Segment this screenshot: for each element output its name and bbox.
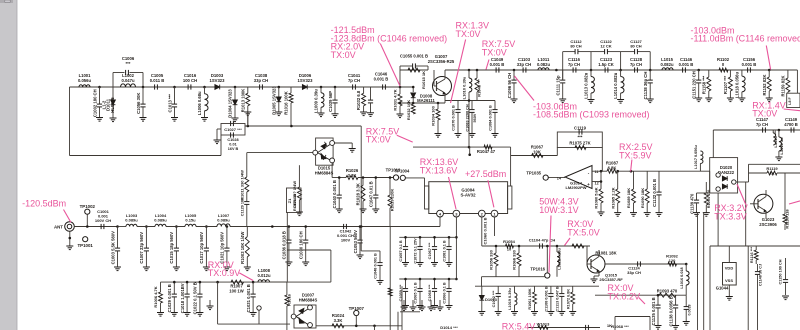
inductor L1019 shunt [778,130,780,137]
capacitor C1128 series [635,67,638,72]
wire D1015 top pin to ground [335,142,353,144]
inductor L1015 series [662,68,673,70]
wire from D1020 to right box [736,181,749,183]
resistor R1092 series [668,262,677,266]
capacitor C1029 0.001 B shunt [173,282,175,294]
svg-text:TX:3.3V: TX:3.3V [714,211,747,221]
resistor R1116 shunt [755,246,757,250]
svg-text:100 CH: 100 CH [183,78,197,83]
capacitor C1015 18p 560V shunt [175,227,177,249]
inductor L1005 [185,224,196,226]
capacitor C1040 0.001 B shunt [338,178,340,196]
svg-text:C1119: C1119 [574,126,587,131]
svg-text:C1029 0.001 B: C1029 0.001 B [167,284,172,312]
svg-text:1.5p CK: 1.5p CK [598,62,614,67]
resistor R1090 shunt [646,171,648,189]
svg-text:+27.5dBm: +27.5dBm [465,169,506,179]
inductor L1006 0.68u shunt [204,87,206,94]
svg-text:-120.5dBm: -120.5dBm [22,199,66,209]
svg-text:C1003 5.5K 560V: C1003 5.5K 560V [110,231,115,264]
svg-text:80 CH: 80 CH [630,44,641,49]
node [630,170,633,173]
svg-text:R1094 470: R1094 470 [707,190,711,209]
svg-text:100 1W: 100 1W [229,288,243,293]
svg-text:C1027 ***: C1027 *** [224,127,242,132]
svg-text:R1054: R1054 [503,239,516,244]
wire rail end down [796,70,798,93]
resistor R1094 shunt [705,182,707,193]
capacitor C1049 series [496,67,499,72]
scanner gray margin strip [0,0,17,330]
svg-text:C1002 180 CH: C1002 180 CH [92,89,97,117]
svg-text:R1015 1K: R1015 1K [421,71,426,89]
resistor R1107 *** shunt [729,70,731,77]
test point TP1012 [393,175,398,180]
resistor R1013 100K shunt [247,87,249,93]
svg-text:D1005 1SV323: D1005 1SV323 [271,86,276,115]
wire upper mid bus [482,276,546,278]
svg-text:R1085 2.2K: R1085 2.2K [610,187,615,208]
svg-text:TX:0.2V: TX:0.2V [608,292,641,302]
wire top RF rail [70,86,414,88]
resistor R1089 shunt [633,171,635,189]
capacitor C1150 shunt [785,258,787,279]
svg-text:W1013: W1013 [537,322,550,327]
svg-text:R1013 100K: R1013 100K [240,89,245,113]
capacitor C1151 220 CH shunt [698,70,700,80]
diode D1008 to emitter line [412,87,414,92]
node [142,86,145,89]
resistor R1075 27K [575,146,586,150]
leader RX1.3 [451,40,466,104]
wire corner down to R1067 line [510,147,512,155]
svg-text:C1040 0.001 B: C1040 0.001 B [332,180,337,208]
wire x361 down [360,227,362,251]
wire lower-left loop [70,155,222,157]
wire pin1 down [494,217,496,236]
wire IF line right [713,129,800,131]
capacitor C1127 [635,49,638,54]
leader to C1046 [380,44,400,87]
diode D1020 DAN222 [710,158,738,193]
svg-text:R1093 470: R1093 470 [657,289,678,294]
capacitor C1156 series [748,67,751,72]
wire mid bus y126 [245,125,361,127]
resistor R1031 vertical [399,87,401,94]
test point TP1004 [400,175,405,180]
capacitor C1108 shunt [550,286,552,293]
wire ANT chain [74,226,117,228]
capacitor C1041 series [353,84,356,89]
capacitor C1123 series [605,67,608,72]
svg-text:R1159 82K: R1159 82K [781,76,786,97]
svg-text:TX:5.0V: TX:5.0V [567,227,600,237]
capacitor C1148 shunt [757,264,759,271]
leader +27.5 [488,180,494,207]
resistor R1054 series [506,244,514,248]
wire up to module pin4 [439,217,441,227]
capacitor C1147 series [763,127,766,132]
capacitor C1134 [246,192,248,201]
capacitor C1042 series [344,224,347,229]
resistor R1007 series [231,280,244,284]
wire emitter top bus [445,100,495,102]
capacitor C1132 0.001 B shunt [658,171,660,192]
svg-text:G1044: G1044 [716,286,729,291]
resistor R1016 shunt [290,87,292,93]
svg-text:C1150 100 CH: C1150 100 CH [779,259,783,284]
node [555,69,558,72]
bypass ladder top row [562,52,564,70]
svg-text:L1012 0.28u: L1012 0.28u [558,248,562,270]
svg-text:C1022 0.1 50V B: C1022 0.1 50V B [193,282,198,314]
wire module right connect [510,156,512,187]
svg-text:C1067 ***: C1067 *** [428,242,432,259]
svg-text:C1111 15p: C1111 15p [556,75,561,95]
svg-text:C1132 0.001 B: C1132 0.001 B [652,179,657,207]
svg-text:R1090 18K: R1090 18K [640,188,645,208]
svg-text:TX:0V: TX:0V [331,50,356,60]
svg-text:R1061 100K: R1061 100K [528,288,532,310]
resistor R1021 shunt [298,165,300,187]
node [768,69,771,72]
svg-text:L1025 ***: L1025 *** [773,130,778,148]
leader 50W [549,216,551,273]
capacitor C1005 series [150,86,155,88]
leader TX0.9 [239,273,253,281]
svg-text:0.089u: 0.089u [154,218,167,223]
wire lower left net [161,281,288,283]
capacitor C1104 series [540,243,543,248]
svg-text:C1148 36 CJ: C1148 36 CJ [759,264,763,286]
inductor L1016 shunt [685,264,687,271]
svg-text:0.047u: 0.047u [121,78,134,83]
node on rail [98,86,101,89]
wire emitter bias joins [469,147,471,155]
svg-text:L1017 0.056u: L1017 0.056u [694,145,698,169]
svg-text:+: + [587,182,590,187]
inductor L1019b shunt [514,286,516,293]
svg-text:TX:13.6V: TX:13.6V [420,166,458,176]
svg-text:R1016: R1016 [287,293,292,306]
svg-text:R1006 4.7K: R1006 4.7K [153,286,158,307]
svg-text:16V B: 16V B [228,147,239,151]
resistor R1067 series [532,154,543,158]
svg-text:RX:5.4V: RX:5.4V [502,322,536,330]
svg-text:100V CH: 100V CH [95,218,111,223]
svg-text:0.011 B: 0.011 B [150,78,164,83]
svg-text:7p CH: 7p CH [630,62,642,67]
capacitor C1103 series [523,67,526,72]
resistor R1047 series [484,145,492,149]
resistor R1102 series [713,69,719,71]
test point TP1002 [85,209,90,214]
inductor L1014 0.082u shunt [620,70,622,76]
svg-text:***: *** [578,135,583,140]
leader RX2.5 [631,160,632,172]
test point TP1001 [83,237,88,242]
svg-text:R1032 10K: R1032 10K [406,100,411,120]
svg-text:TX:0V: TX:0V [482,47,507,57]
svg-text:0.001 B: 0.001 B [679,62,694,67]
inductor L1009 0.39u shunt [320,87,322,93]
leader C1146 [766,46,770,70]
leader TX0.2 [639,298,645,305]
transistor G1007 [433,77,452,96]
diode D1015 HM6884S [316,138,334,165]
svg-text:R1046 ***: R1046 *** [477,79,482,97]
svg-text:2SC3357-RF: 2SC3357-RF [599,277,623,282]
svg-text:7p CH: 7p CH [756,122,768,127]
svg-text:TX:0V: TX:0V [752,109,777,119]
svg-text:C1081 0.1 B: C1081 0.1 B [443,240,447,262]
wire vertical risers [697,246,699,330]
svg-text:100V: 100V [341,238,351,243]
svg-text:33p CH: 33p CH [254,78,268,83]
svg-text:C1068 ***: C1068 *** [428,284,432,301]
node [685,263,688,266]
node [334,86,337,89]
svg-text:TX:0V: TX:0V [366,135,391,145]
svg-text:R1116 ***: R1116 *** [750,246,754,263]
inductor L1025 [772,130,774,133]
svg-text:TP1002: TP1002 [80,204,96,209]
wire bottom net [316,325,402,327]
svg-text:C1104 47p CH: C1104 47p CH [529,238,556,243]
test point TP1016 [545,273,550,278]
capacitor C1006 bypass loop [112,73,114,88]
svg-text:Z1: Z1 [287,198,292,203]
wire D1015 bottom pin down [331,163,333,178]
wire emitter line [400,102,445,104]
inductor L1007 [217,224,230,227]
svg-text:R1016 100K: R1016 100K [284,91,289,115]
svg-text:R1068 ***: R1068 *** [611,324,629,329]
svg-text:R1107 ***: R1107 *** [723,76,728,95]
wire module left connect [424,178,426,186]
svg-text:TP1004: TP1004 [395,168,410,173]
svg-text:C1056 30K: C1056 30K [136,93,141,114]
node [278,86,281,89]
svg-text:L1013 0.082u: L1013 0.082u [584,72,589,99]
resistor R1058 shunt [495,246,497,253]
svg-text:L1016 0.018: L1016 0.018 [680,267,684,288]
svg-text:C1072 0.1 25V: C1072 0.1 25V [414,238,418,264]
svg-text:C1018 1.001BV: C1018 1.001BV [180,283,185,313]
svg-text:C1092 ***: C1092 *** [492,290,496,307]
capacitor C1146 series [683,67,686,72]
svg-text:L1019 0.39u: L1019 0.39u [508,288,512,310]
inductor L1018 0.056u shunt [741,70,743,76]
svg-text:0.012u: 0.012u [257,273,270,278]
resistor R1003 10K 1/4W shunt [246,227,248,237]
svg-text:C1065 0.1 B: C1065 0.1 B [414,282,418,304]
svg-text:C1113 0.047 B: C1113 0.047 B [556,286,560,311]
svg-text:L1-2: L1-2 [102,100,107,109]
svg-text:7p CH: 7p CH [348,78,360,83]
svg-text:L1006 0.68u: L1006 0.68u [197,91,202,115]
svg-text:C1021 10p 560V: C1021 10p 560V [220,232,225,264]
wire op-amp plus rail [592,170,607,172]
wire bottom mid bus [475,285,599,287]
node [203,86,206,89]
svg-text:R1047 47: R1047 47 [477,149,496,154]
svg-text:33p CH: 33p CH [627,270,641,275]
svg-text:R1058 330: R1058 330 [489,249,494,269]
node [234,86,237,89]
svg-text:R1034 100: R1034 100 [431,105,436,125]
svg-text:C1047 0.01 B: C1047 0.01 B [369,181,374,207]
capacitor C1036 0.018 B shunt [288,227,290,241]
svg-text:0.089u: 0.089u [125,218,138,223]
connector box right [787,93,800,107]
capacitor C1138 0.0056 B shunt [675,295,677,305]
inductor L1001 [74,86,79,88]
resistor R1034 vertical [437,102,440,105]
svg-text:CERA B: CERA B [293,194,297,208]
node [778,129,781,132]
svg-text:7p CH: 7p CH [568,62,580,67]
svg-text:C1015 18p 560V: C1015 18p 560V [169,232,174,264]
svg-text:0.15u: 0.15u [185,218,196,223]
wire riser x390 [389,227,391,330]
wire lower box [286,250,288,282]
capacitor C1016 series [188,84,191,89]
capacitor C1007 33p 560V shunt [145,227,147,249]
svg-text:***: *** [126,61,131,66]
diode D1006 series [302,85,307,90]
diode D1013 [481,286,483,295]
module G1004 S-AV32 box [429,182,508,214]
node [697,69,700,72]
capacitor C1124 series [638,261,641,266]
svg-text:R1031 4.7K: R1031 4.7K [393,89,398,110]
capacitor C1013 *** shunt [174,87,176,104]
test point TP1035 [543,175,548,180]
capacitor C1149 series [791,127,794,132]
svg-text:C1057 0.1 B: C1057 0.1 B [399,240,403,262]
leader -120.5 [64,210,71,223]
svg-text:1K: 1K [769,171,774,176]
svg-text:0.001 B: 0.001 B [490,62,505,67]
op-amp G1014 LM2902PW [565,166,592,189]
svg-text:ANT: ANT [54,224,63,229]
svg-text:L1010 0.39u: L1010 0.39u [462,76,467,99]
transistor G1023 [754,194,773,213]
capacitor C1027 coupling [221,124,245,136]
svg-text:10W:3.1V: 10W:3.1V [539,205,578,215]
svg-text:560V: 560V [473,113,477,122]
capacitor C1047 0.01 B shunt [375,178,377,196]
svg-text:C1096 56 CH: C1096 56 CH [507,73,512,98]
svg-text:C1138 36p CH: C1138 36p CH [643,72,648,100]
svg-text:R1152 82K: R1152 82K [762,75,767,96]
inductor L1011 series [538,68,549,70]
svg-text:4700 B: 4700 B [784,122,798,127]
resistor R1026 series [332,177,346,179]
svg-text:D1004 1SV323: D1004 1SV323 [228,89,233,118]
capacitor C1070 shunt [457,101,459,110]
svg-text:HM6884S: HM6884S [315,170,334,175]
svg-text:C1139 470: C1139 470 [689,193,694,214]
capacitor C1017 10p 560V shunt [205,227,207,249]
svg-text:0.001 B: 0.001 B [374,76,389,81]
svg-text:R1075 27K: R1075 27K [569,141,590,146]
svg-text:C1135 0.001 B: C1135 0.001 B [651,297,656,325]
svg-text:C1084 0.001 B: C1084 0.001 B [489,105,493,131]
wire right vertical of mid loop [360,126,362,227]
svg-text:12 CK: 12 CK [600,44,611,49]
svg-text:R1158 ***: R1158 *** [701,76,706,95]
svg-text:C1030 180 CH: C1030 180 CH [299,231,304,259]
diode D1004 1SV323 shunt [234,87,236,100]
capacitor C1113 shunt [561,286,563,293]
resistor R1068 shunt [518,246,520,253]
node [252,281,255,284]
svg-text:33p CH: 33p CH [517,62,531,67]
svg-text:VDD: VDD [725,266,734,271]
svg-text:C1048 0.001 B: C1048 0.001 B [374,253,378,279]
wire y295 net [595,294,686,296]
svg-text:TX:0.9V: TX:0.9V [208,268,241,278]
svg-text:C1055 0.001 B: C1055 0.001 B [400,54,428,59]
resistor R1029 shunt [389,178,391,196]
module pins [437,210,444,217]
capacitor C1111 15p shunt [562,70,564,80]
resistor R1006 shunt [160,282,162,292]
svg-text:0.082u: 0.082u [660,62,673,67]
capacitor C1001 series [101,224,104,229]
svg-text:C1036 0.018 B: C1036 0.018 B [282,231,287,259]
capacitor C1092 shunt [497,286,499,293]
svg-text:C1017 10p 560V: C1017 10p 560V [199,232,204,264]
wire feed bus y147 [413,146,511,148]
node [175,225,178,228]
svg-text:L8 F: L8 F [788,97,792,105]
svg-text:0.01: 0.01 [229,142,236,146]
svg-text:0.0018: 0.0018 [688,305,692,316]
svg-text:R1089 18K: R1089 18K [626,188,631,208]
svg-text:TP1007: TP1007 [349,306,365,311]
svg-text:R1028 3.3K: R1028 3.3K [356,183,361,205]
capacitor C1018 1.001BV shunt [186,282,188,294]
diode shunt [112,87,114,100]
svg-text:-108.5dBm (C1093 removed): -108.5dBm (C1093 removed) [533,110,650,120]
capacitor C1046 series [383,84,386,89]
capacitor on x686 lower [684,307,689,310]
inductor L1012 shunt [556,246,558,252]
node [513,69,516,72]
svg-text:1SV323: 1SV323 [210,78,226,83]
cap bank row2 [399,278,456,280]
capacitor C1002 180 CH shunt [99,87,101,104]
svg-text:C1031 0.001 B: C1031 0.001 B [246,284,251,312]
diode D1007 HM6884S [294,305,316,328]
box bottom left of right area [615,316,650,318]
svg-text:0.001 B: 0.001 B [742,62,757,67]
svg-text:L1019 1u: L1019 1u [779,137,784,155]
svg-text:R1011 330 1/4W: R1011 330 1/4W [239,170,244,200]
svg-text:0.056u: 0.056u [78,78,91,83]
wire riser x748 [747,246,749,330]
capacitor C1119 [579,129,582,134]
wire right column riser [745,182,747,246]
wire verticals down bottom [397,312,399,330]
wire D1020 bottom pin down [717,193,719,246]
svg-text:R1032 6.8: R1032 6.8 [356,90,361,110]
capacitor C1083 shunt [471,101,473,110]
svg-text:0.082u: 0.082u [537,62,550,67]
